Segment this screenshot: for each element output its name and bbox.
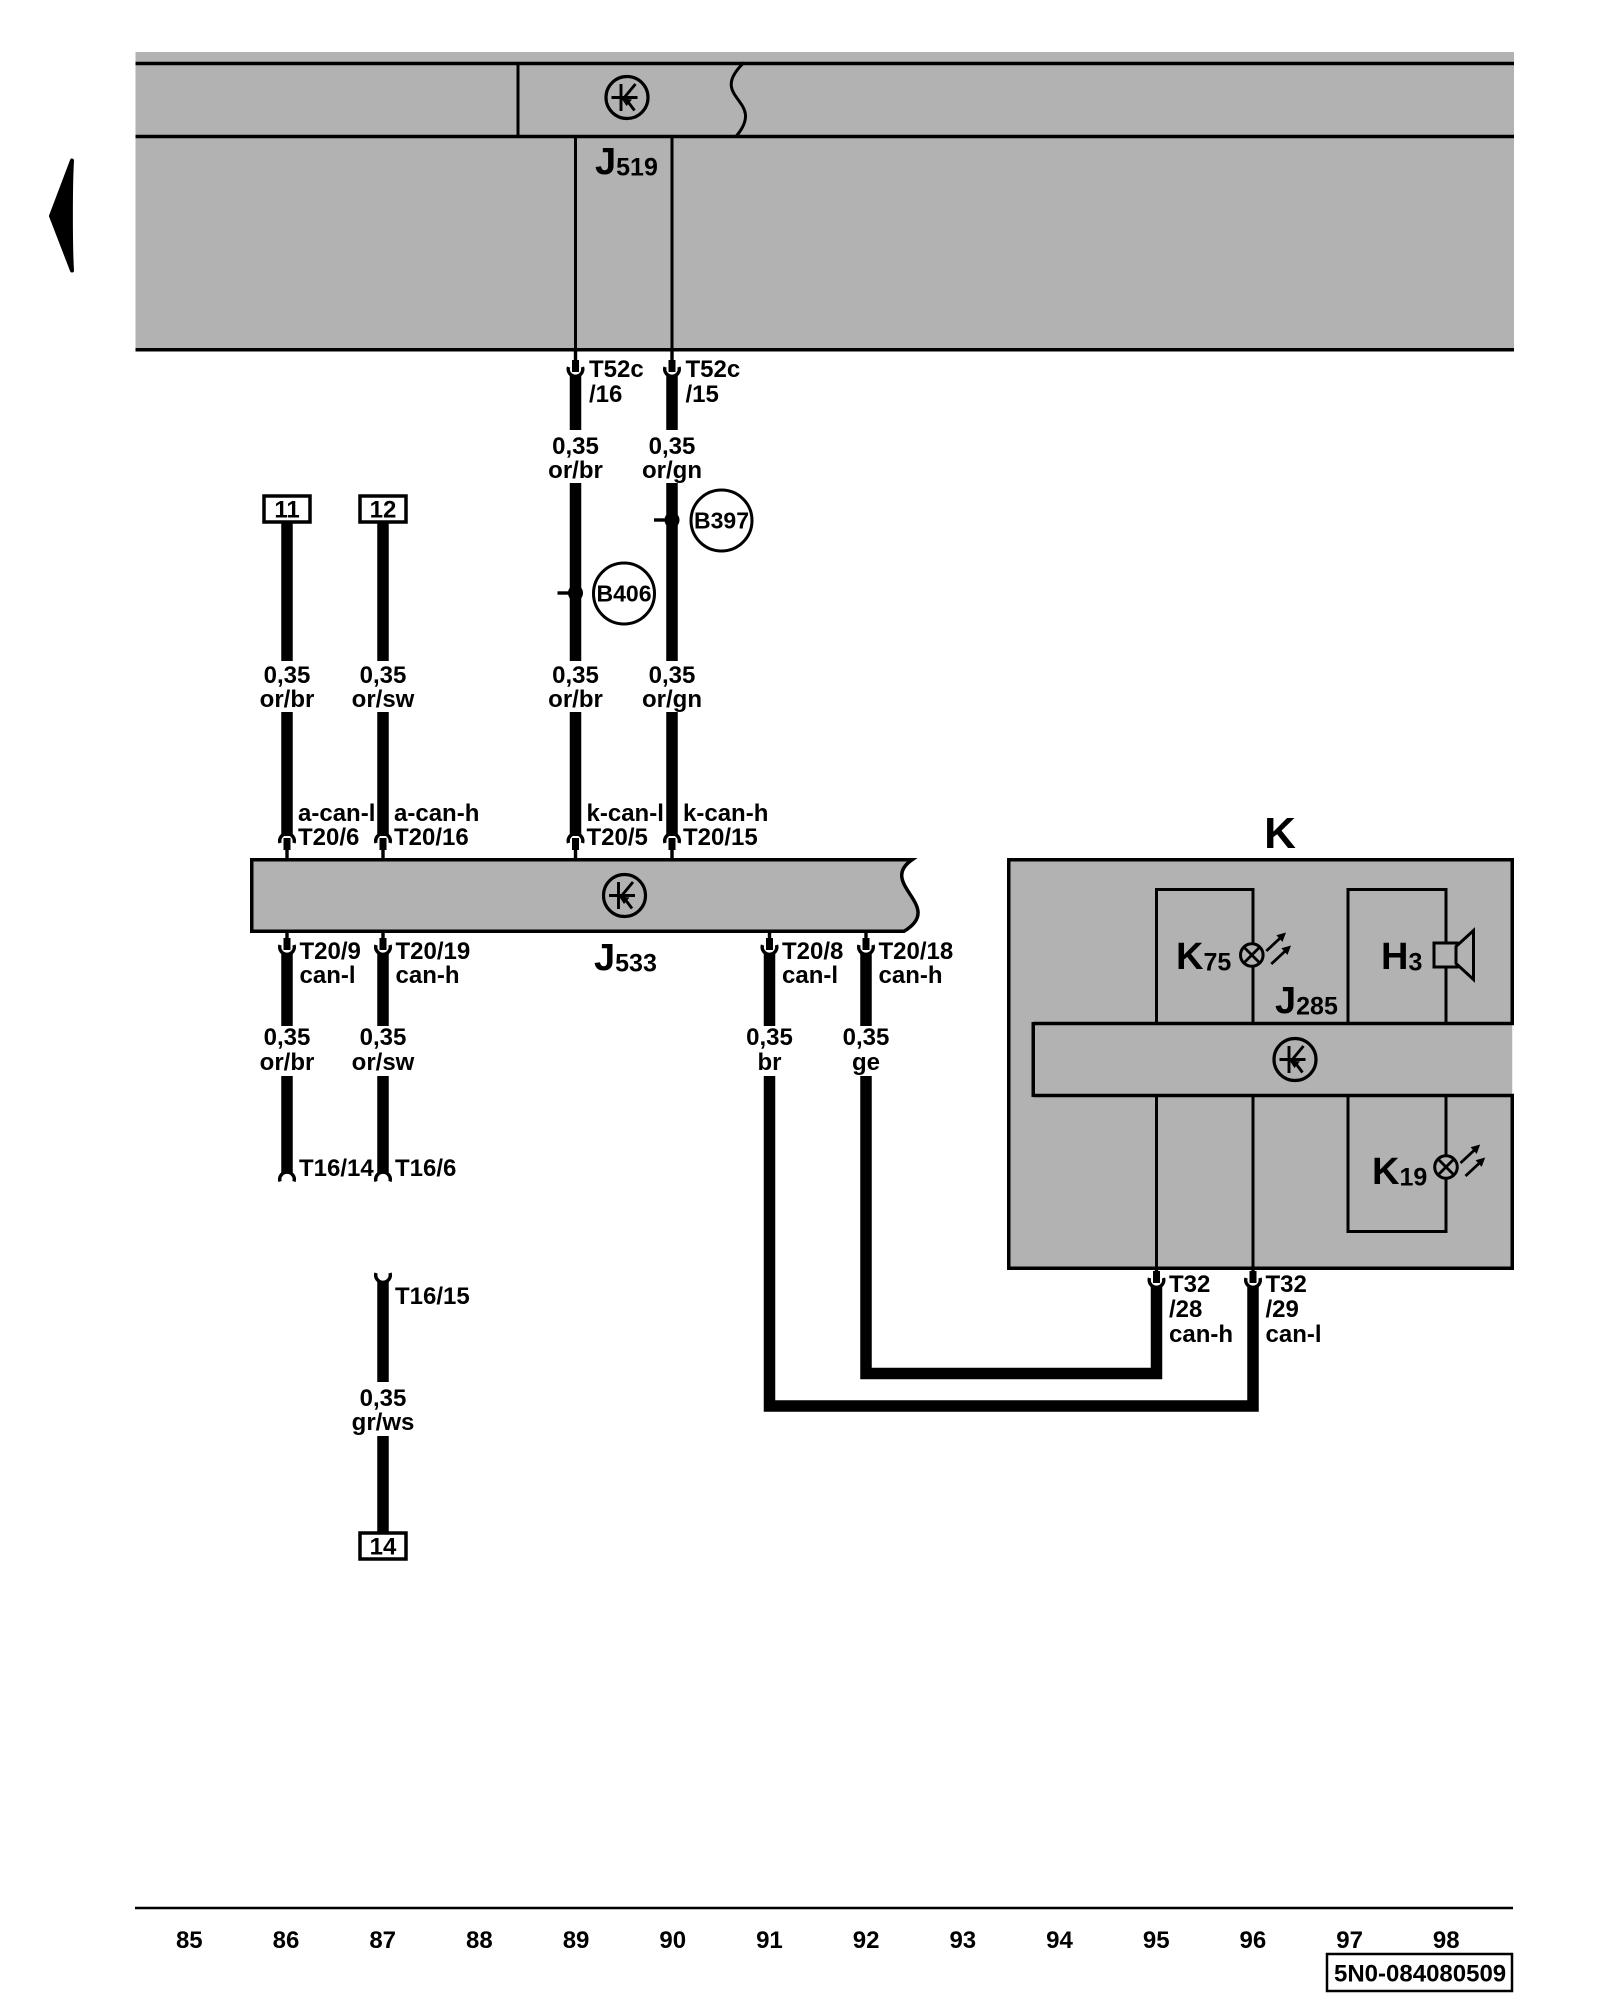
svg-text:/29: /29	[1266, 1296, 1299, 1323]
svg-text:T20/15: T20/15	[683, 824, 758, 851]
svg-text:gr/ws: gr/ws	[352, 1409, 415, 1436]
svg-text:5N0-084080509: 5N0-084080509	[1334, 1961, 1506, 1988]
svg-text:T20/16: T20/16	[394, 824, 469, 851]
svg-text:a-can-h: a-can-h	[394, 800, 479, 827]
svg-text:0,35: 0,35	[746, 1024, 793, 1051]
svg-text:or/br: or/br	[260, 1049, 315, 1076]
svg-text:k-can-l: k-can-l	[587, 800, 664, 827]
svg-text:can-l: can-l	[1266, 1321, 1322, 1348]
svg-text:k-can-h: k-can-h	[683, 800, 768, 827]
svg-text:K: K	[1264, 809, 1296, 858]
svg-text:88: 88	[466, 1927, 493, 1954]
svg-text:T32: T32	[1169, 1271, 1210, 1298]
svg-text:or/br: or/br	[548, 457, 603, 484]
svg-text:87: 87	[369, 1927, 396, 1954]
svg-text:0,35: 0,35	[360, 1385, 407, 1412]
svg-text:T16/15: T16/15	[395, 1283, 470, 1310]
svg-text:/16: /16	[589, 381, 622, 408]
svg-text:14: 14	[370, 1534, 397, 1561]
svg-text:96: 96	[1240, 1927, 1267, 1954]
svg-text:or/gn: or/gn	[642, 686, 702, 713]
svg-text:T20/9: T20/9	[300, 938, 361, 965]
svg-text:97: 97	[1336, 1927, 1363, 1954]
svg-text:90: 90	[659, 1927, 686, 1954]
svg-text:12: 12	[370, 497, 397, 524]
svg-text:T52c: T52c	[589, 356, 644, 383]
svg-text:0,35: 0,35	[649, 662, 696, 689]
svg-text:85: 85	[176, 1927, 203, 1954]
svg-text:0,35: 0,35	[843, 1024, 890, 1051]
svg-text:0,35: 0,35	[649, 433, 696, 460]
svg-text:T20/6: T20/6	[298, 824, 359, 851]
svg-text:94: 94	[1046, 1927, 1073, 1954]
svg-text:B397: B397	[694, 508, 749, 534]
svg-text:98: 98	[1433, 1927, 1460, 1954]
svg-text:0,35: 0,35	[360, 662, 407, 689]
svg-text:T32: T32	[1266, 1271, 1307, 1298]
svg-text:T52c: T52c	[686, 356, 741, 383]
svg-text:can-h: can-h	[879, 962, 943, 989]
svg-text:0,35: 0,35	[360, 1024, 407, 1051]
svg-text:T16/14: T16/14	[299, 1155, 374, 1182]
svg-text:or/br: or/br	[548, 686, 603, 713]
svg-text:95: 95	[1143, 1927, 1170, 1954]
svg-text:B406: B406	[597, 581, 652, 607]
svg-text:91: 91	[756, 1927, 783, 1954]
svg-text:0,35: 0,35	[552, 662, 599, 689]
svg-text:86: 86	[273, 1927, 300, 1954]
svg-text:/15: /15	[686, 381, 719, 408]
svg-text:92: 92	[853, 1927, 880, 1954]
svg-text:0,35: 0,35	[264, 662, 311, 689]
svg-text:0,35: 0,35	[264, 1024, 311, 1051]
svg-text:br: br	[758, 1049, 782, 1076]
svg-text:T20/19: T20/19	[396, 938, 471, 965]
svg-text:or/sw: or/sw	[352, 1049, 415, 1076]
svg-text:a-can-l: a-can-l	[298, 800, 375, 827]
svg-text:93: 93	[949, 1927, 976, 1954]
svg-text:or/sw: or/sw	[352, 686, 415, 713]
svg-text:can-h: can-h	[1169, 1321, 1233, 1348]
svg-text:89: 89	[563, 1927, 590, 1954]
svg-text:T20/5: T20/5	[587, 824, 648, 851]
svg-text:0,35: 0,35	[552, 433, 599, 460]
svg-text:11: 11	[274, 497, 299, 524]
svg-text:can-l: can-l	[782, 962, 838, 989]
svg-text:/28: /28	[1169, 1296, 1202, 1323]
svg-text:or/gn: or/gn	[642, 457, 702, 484]
svg-text:T20/18: T20/18	[879, 938, 954, 965]
svg-text:or/br: or/br	[260, 686, 315, 713]
svg-text:T16/6: T16/6	[395, 1155, 456, 1182]
svg-text:T20/8: T20/8	[782, 938, 843, 965]
svg-text:can-l: can-l	[300, 962, 356, 989]
svg-text:can-h: can-h	[396, 962, 460, 989]
svg-text:ge: ge	[852, 1049, 880, 1076]
